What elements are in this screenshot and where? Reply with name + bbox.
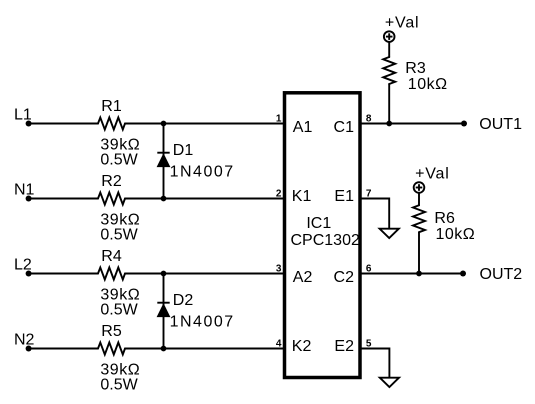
svg-text:CPC1302: CPC1302 bbox=[291, 232, 360, 249]
diode D2 bbox=[157, 303, 169, 317]
svg-text:A1: A1 bbox=[293, 119, 313, 136]
svg-text:IC1: IC1 bbox=[306, 215, 331, 232]
svg-text:1N4007: 1N4007 bbox=[170, 313, 235, 330]
svg-text:1N4007: 1N4007 bbox=[170, 163, 235, 180]
svg-text:L1: L1 bbox=[14, 107, 32, 124]
svg-text:OUT2: OUT2 bbox=[480, 266, 523, 283]
svg-text:A2: A2 bbox=[293, 269, 313, 286]
resistor R5 bbox=[98, 343, 125, 355]
resistor R6 bbox=[413, 205, 425, 232]
svg-text:R4: R4 bbox=[101, 248, 122, 265]
diode D1 bbox=[157, 153, 169, 167]
svg-text:0.5W: 0.5W bbox=[100, 151, 138, 168]
svg-text:R3: R3 bbox=[405, 60, 426, 77]
junction D2 top bbox=[161, 271, 167, 277]
terminal dot N2 bbox=[26, 346, 32, 352]
svg-text:E2: E2 bbox=[334, 338, 354, 355]
svg-text:C1: C1 bbox=[334, 119, 355, 136]
svg-text:OUT1: OUT1 bbox=[479, 116, 522, 133]
wire IC pin 6 to OUT2 bbox=[362, 273, 464, 275]
wire R5 to IC pin 4 bbox=[125, 348, 283, 350]
svg-text:7: 7 bbox=[366, 189, 372, 200]
ground (pin 7) bbox=[380, 229, 399, 238]
terminal dot OUT2 bbox=[460, 271, 466, 277]
svg-text:K1: K1 bbox=[292, 188, 312, 205]
svg-text:D2: D2 bbox=[173, 292, 194, 309]
resistor R4 bbox=[98, 268, 125, 280]
svg-text:8: 8 bbox=[366, 114, 372, 125]
svg-text:R5: R5 bbox=[101, 323, 122, 340]
IC U1 body bbox=[285, 93, 361, 378]
svg-text:N2: N2 bbox=[14, 332, 35, 349]
svg-text:R6: R6 bbox=[434, 210, 455, 227]
wire IC pin 7 stub bbox=[362, 199, 390, 229]
power symbol +Val (R3) bbox=[384, 31, 395, 42]
wire R2 to IC pin 2 bbox=[125, 198, 283, 200]
wire R3 to pin8 net bbox=[388, 84, 390, 124]
svg-text:10kΩ: 10kΩ bbox=[436, 226, 476, 243]
svg-text:0.5W: 0.5W bbox=[100, 376, 138, 393]
svg-text:R2: R2 bbox=[101, 173, 122, 190]
svg-text:4: 4 bbox=[276, 339, 282, 350]
wire R1 to IC pin 1 bbox=[125, 123, 283, 125]
svg-text:+Val: +Val bbox=[385, 14, 419, 31]
resistor R1 bbox=[98, 118, 125, 130]
junction R6/OUT2 bbox=[416, 271, 422, 277]
svg-text:0.5W: 0.5W bbox=[100, 301, 138, 318]
wire +Val to R6 bbox=[418, 193, 420, 205]
svg-text:5: 5 bbox=[366, 339, 372, 350]
svg-text:2: 2 bbox=[276, 189, 282, 200]
terminal dot L1 bbox=[26, 121, 32, 127]
resistor R2 bbox=[98, 193, 125, 205]
svg-text:3: 3 bbox=[276, 264, 282, 275]
terminal dot L2 bbox=[26, 271, 32, 277]
junction R3/OUT1 bbox=[386, 121, 392, 127]
ground (pin 5) bbox=[380, 378, 399, 387]
terminal dot N1 bbox=[26, 196, 32, 202]
wire diode D2 branch bbox=[163, 274, 165, 349]
junction D2 bottom bbox=[161, 346, 167, 352]
wire L1 to R1 bbox=[29, 123, 98, 125]
svg-text:0.5W: 0.5W bbox=[100, 226, 138, 243]
svg-text:C2: C2 bbox=[334, 269, 355, 286]
svg-text:1: 1 bbox=[276, 114, 282, 125]
wire IC pin 8 to OUT1 bbox=[362, 123, 465, 125]
svg-text:6: 6 bbox=[366, 264, 372, 275]
wire IC pin 5 stub bbox=[362, 349, 390, 378]
wire R4 to IC pin 3 bbox=[125, 273, 283, 275]
wire R6 to pin6 net bbox=[418, 232, 420, 273]
junction D1 top bbox=[161, 121, 167, 127]
wire +Val to R3 bbox=[388, 42, 390, 57]
wire L2 to R4 bbox=[29, 273, 98, 275]
resistor R3 bbox=[383, 57, 395, 84]
power symbol +Val (R6) bbox=[414, 182, 425, 193]
wire diode D1 branch bbox=[163, 124, 165, 199]
wire N1 to R2 bbox=[29, 198, 98, 200]
wire N2 to R5 bbox=[29, 348, 98, 350]
terminal dot OUT1 bbox=[461, 121, 467, 127]
svg-text:D1: D1 bbox=[173, 142, 194, 159]
svg-text:K2: K2 bbox=[292, 338, 312, 355]
svg-text:R1: R1 bbox=[101, 98, 122, 115]
svg-text:N1: N1 bbox=[14, 182, 35, 199]
junction D1 bottom bbox=[161, 196, 167, 202]
svg-text:10kΩ: 10kΩ bbox=[408, 76, 448, 93]
svg-text:E1: E1 bbox=[334, 188, 354, 205]
svg-text:L2: L2 bbox=[14, 257, 32, 274]
svg-text:+Val: +Val bbox=[415, 165, 449, 182]
